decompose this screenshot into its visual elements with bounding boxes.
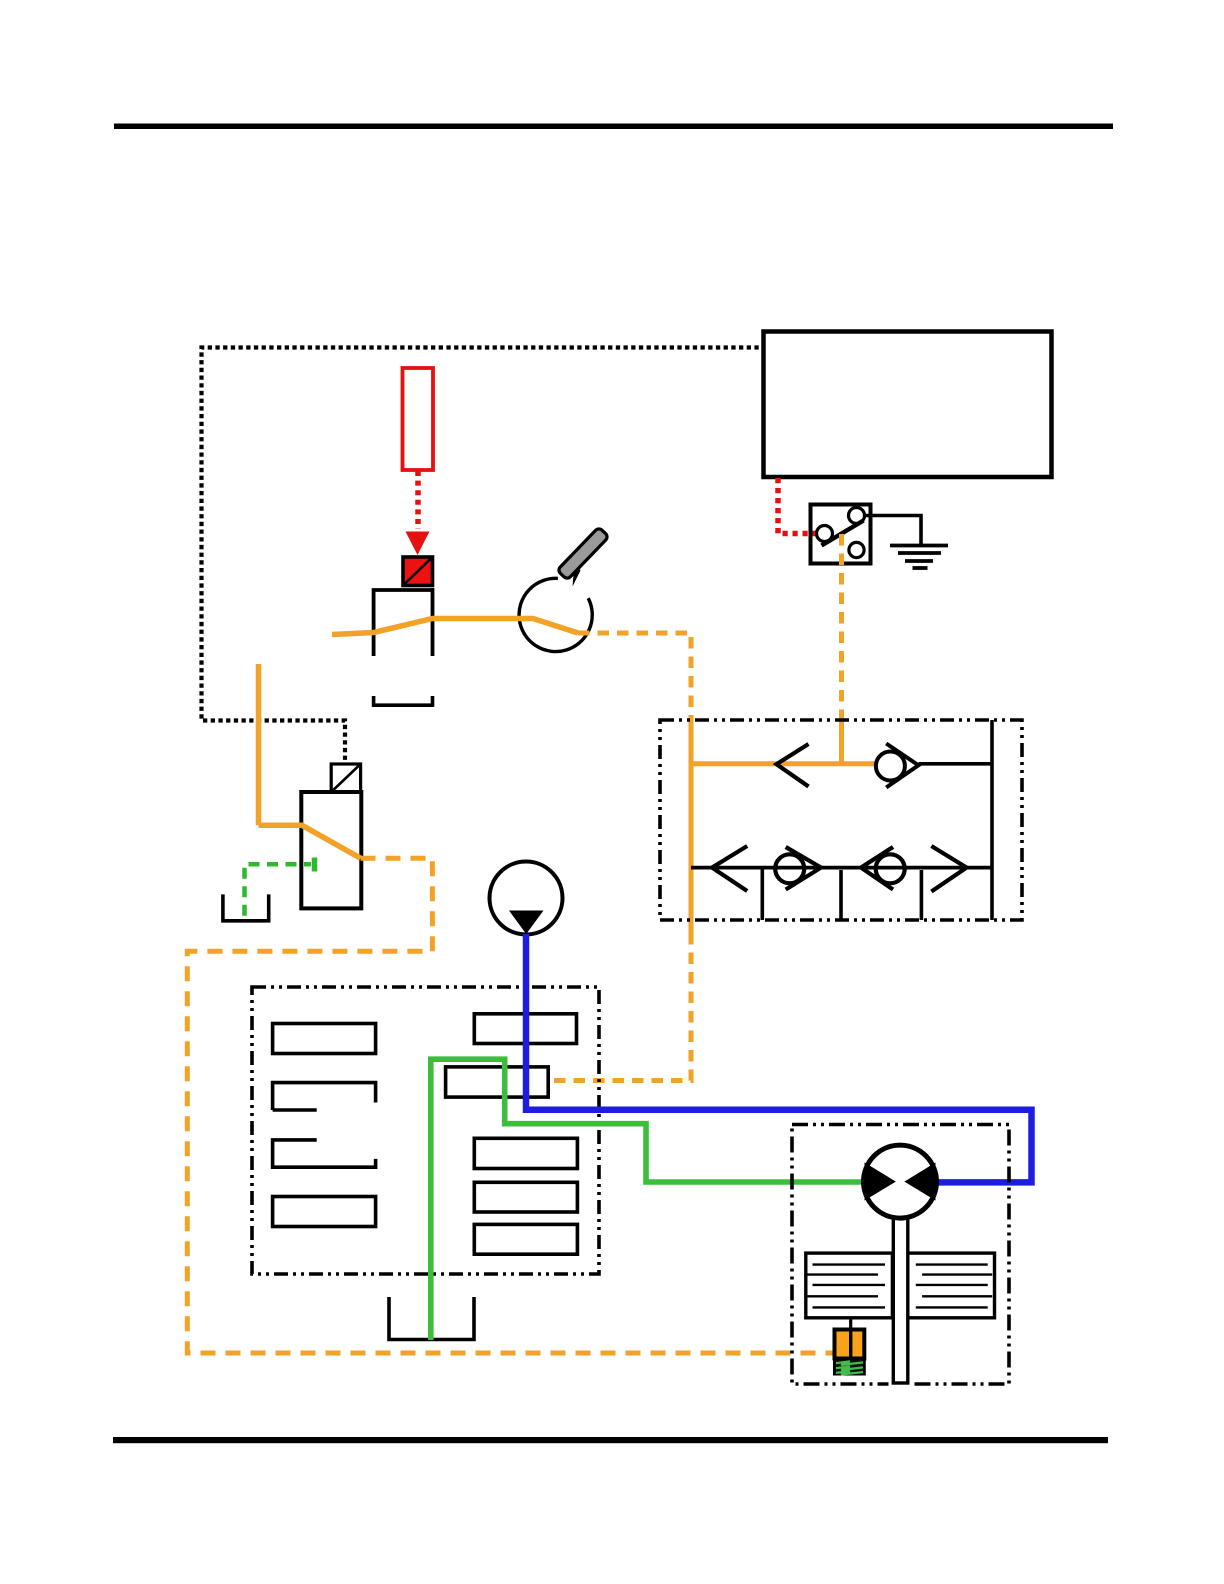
- wire: green return line: [431, 1059, 864, 1340]
- valve V1 body: [374, 588, 434, 656]
- green pilot tick: [312, 858, 318, 872]
- switch S1 lower contact: [849, 542, 864, 557]
- check valve block right manifold line: [990, 720, 994, 920]
- manifold cartridge 6: [446, 1067, 549, 1097]
- manifold cartridge 4: [273, 1197, 376, 1227]
- wire: orange solid inside check valve block: [689, 719, 694, 933]
- manifold cartridge 2 (open): [273, 1083, 376, 1110]
- manifold cartridge 1: [273, 1024, 376, 1054]
- switch S1 lever: [822, 521, 864, 546]
- bottom rule: [113, 1437, 1108, 1443]
- cooler enclosure: [792, 1125, 1009, 1385]
- wire: green dashed pilot line: [245, 864, 312, 917]
- wire: orange through valve V2: [259, 825, 361, 858]
- manifold cartridge 3 (open): [273, 1140, 376, 1167]
- orifice arrow (upper left): [777, 744, 809, 787]
- cooler core left: [806, 1253, 893, 1318]
- fan motor M1: [864, 1145, 937, 1218]
- manifold cartridge 9: [474, 1224, 577, 1254]
- thermal switch spring: [835, 1359, 865, 1375]
- wire: cooler core to thermal switch: [849, 1318, 852, 1330]
- wire: orange dashed check block to manifold port: [549, 933, 692, 1081]
- wire: upper gallery black: [919, 762, 993, 766]
- thermal switch solenoid (orange): [835, 1330, 865, 1359]
- wire: orange upper gallery: [691, 761, 875, 766]
- switch S1 box: [811, 505, 871, 564]
- orifice arrow (lower left): [712, 846, 747, 891]
- manifold cartridge 8: [474, 1182, 577, 1212]
- wire: switch to ground: [864, 516, 921, 545]
- tank T3: [389, 1297, 474, 1340]
- solenoid A (red) of valve V1: [403, 557, 433, 586]
- wire: orange dashed pilot loop to cooler bypass: [187, 858, 833, 1353]
- manifold enclosure: [252, 987, 599, 1274]
- check block drain stubs: [762, 868, 921, 920]
- relay box K1: [764, 332, 1052, 478]
- valve V2 body: [301, 792, 361, 908]
- wire: orange dashed clamp to check valve block: [578, 633, 691, 719]
- switch S1 common contact: [817, 526, 833, 542]
- check valve CV3: [861, 847, 905, 890]
- wire: dotted control boundary: [202, 348, 764, 765]
- fan shaft: [889, 1379, 913, 1389]
- orifice arrow (lower right): [931, 846, 966, 892]
- tank T1: [374, 696, 433, 705]
- top rule: [114, 124, 1113, 130]
- cooler core right: [908, 1253, 995, 1318]
- check valve CV1: [876, 744, 919, 788]
- wire: orange solid into check valve block: [839, 719, 844, 766]
- wire: red dotted relay to switch: [778, 478, 821, 534]
- red arrowhead: [406, 532, 430, 556]
- current clamp meter: [519, 527, 609, 651]
- check valve CV2: [775, 847, 821, 890]
- wire: orange vertical to valve V2: [256, 664, 262, 825]
- pump P1: [490, 862, 563, 935]
- manifold cartridge 5: [474, 1014, 576, 1044]
- red indicator lamp: [403, 368, 434, 470]
- wire: orange through valve V1 and clamp: [332, 619, 578, 635]
- manifold cartridge 7: [474, 1138, 577, 1168]
- wire: lower gallery black: [691, 866, 992, 870]
- tank T2: [223, 894, 269, 920]
- wire: red dotted indicator to solenoid: [415, 471, 421, 529]
- switch S1 upper contact: [849, 508, 865, 524]
- check valve block enclosure: [660, 720, 1022, 920]
- solenoid B of valve V2: [331, 764, 360, 792]
- wire: orange dashed switch to check valve block: [839, 534, 844, 719]
- wire: blue pressure line pump to motor: [526, 934, 1032, 1182]
- ground: [890, 546, 948, 569]
